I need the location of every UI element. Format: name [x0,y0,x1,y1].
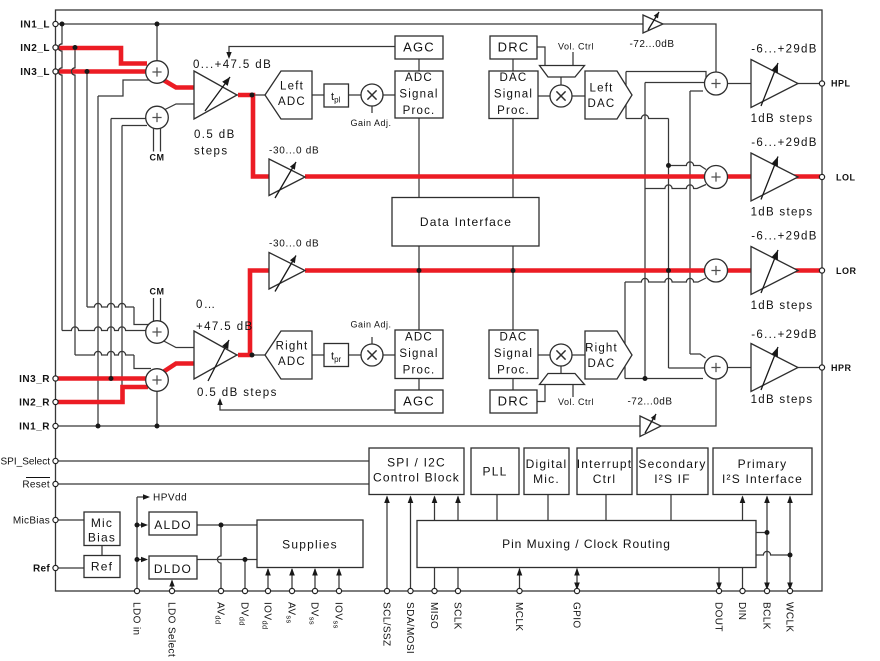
svg-text:-6...+29dB: -6...+29dB [751,137,817,149]
svg-text:CM: CM [150,287,165,297]
svg-text:+47.5 dB: +47.5 dB [196,321,254,333]
svg-text:AGC: AGC [403,40,435,55]
svg-text:DAC: DAC [500,72,528,84]
svg-text:HPR: HPR [831,363,852,373]
svg-text:DAC: DAC [500,332,528,344]
svg-text:-6...+29dB: -6...+29dB [751,231,817,243]
svg-text:CM: CM [150,153,165,163]
svg-text:SDA/MOSI: SDA/MOSI [404,602,415,654]
svg-text:WCLK: WCLK [784,602,795,633]
svg-text:IN1_L: IN1_L [20,20,50,31]
svg-text:Vol. Ctrl: Vol. Ctrl [558,42,594,52]
svg-text:1dB steps: 1dB steps [751,300,814,312]
svg-text:Vol. Ctrl: Vol. Ctrl [558,397,594,407]
svg-text:Ctrl: Ctrl [593,472,616,486]
svg-text:IN2_R: IN2_R [19,398,50,409]
svg-text:Signal: Signal [494,89,533,101]
svg-text:-30...0 dB: -30...0 dB [269,146,319,157]
svg-text:Ref: Ref [91,560,113,574]
svg-text:Bias: Bias [88,531,116,545]
svg-text:SCLK: SCLK [452,602,463,630]
svg-text:Gain Adj.: Gain Adj. [350,118,391,128]
svg-text:I²S Interface: I²S Interface [722,472,803,486]
svg-text:LOR: LOR [836,266,857,276]
svg-text:Proc.: Proc. [497,365,530,377]
svg-text:I²S IF: I²S IF [654,472,691,486]
svg-text:-72...0dB: -72...0dB [627,397,672,408]
svg-text:IN1_R: IN1_R [19,422,50,433]
svg-text:Supplies: Supplies [282,538,338,552]
svg-text:steps: steps [194,146,229,158]
svg-text:IN2_L: IN2_L [20,43,50,54]
svg-text:Digital: Digital [526,457,568,471]
svg-text:Ref: Ref [33,564,50,575]
svg-text:1dB steps: 1dB steps [751,394,814,406]
svg-text:Signal: Signal [399,89,438,101]
svg-text:0…: 0… [196,299,217,311]
svg-text:Right: Right [585,343,618,355]
svg-text:SCL/SSZ: SCL/SSZ [381,602,392,646]
svg-text:DOUT: DOUT [713,602,724,632]
svg-text:Left: Left [590,83,614,95]
svg-text:0.5 dB: 0.5 dB [194,129,236,141]
svg-text:Left: Left [280,81,304,93]
svg-text:MicBias: MicBias [13,516,50,527]
svg-text:Proc.: Proc. [403,105,436,117]
svg-text:LDO Select: LDO Select [166,602,177,657]
svg-text:DIN: DIN [736,602,747,620]
svg-text:Right: Right [276,341,309,353]
svg-text:ADC: ADC [278,356,306,368]
svg-text:1dB steps: 1dB steps [751,207,814,219]
svg-text:Signal: Signal [399,348,438,360]
svg-text:Primary: Primary [738,457,788,471]
svg-text:-72...0dB: -72...0dB [629,39,674,50]
svg-text:-6...+29dB: -6...+29dB [751,329,817,341]
svg-text:Mic: Mic [91,516,113,530]
svg-text:LOL: LOL [836,173,856,183]
svg-text:Interrupt: Interrupt [577,457,633,471]
svg-text:-6...+29dB: -6...+29dB [751,44,817,56]
svg-text:Data Interface: Data Interface [420,215,512,229]
svg-text:BCLK: BCLK [761,602,772,630]
svg-text:DRC: DRC [498,394,530,409]
svg-text:Pin Muxing / Clock Routing: Pin Muxing / Clock Routing [502,537,671,551]
svg-text:-30...0 dB: -30...0 dB [269,239,319,250]
svg-text:IN3_L: IN3_L [20,67,50,78]
svg-text:ADC: ADC [278,96,306,108]
svg-text:Reset: Reset [22,480,50,491]
svg-text:ADC: ADC [405,72,433,84]
svg-text:GPIO: GPIO [571,602,582,629]
svg-text:DRC: DRC [498,40,530,55]
svg-text:DLDO: DLDO [154,562,192,576]
svg-text:HPL: HPL [831,79,851,89]
svg-text:1dB steps: 1dB steps [751,113,814,125]
svg-text:ALDO: ALDO [154,518,191,532]
svg-text:SPI / I2C: SPI / I2C [387,456,446,470]
svg-text:MISO: MISO [428,602,439,629]
svg-text:HPVdd: HPVdd [153,493,187,504]
svg-text:Mic.: Mic. [533,472,560,486]
svg-text:0.5 dB steps: 0.5 dB steps [197,387,278,399]
svg-text:DAC: DAC [588,358,616,370]
svg-text:Secondary: Secondary [638,457,706,471]
svg-text:AGC: AGC [403,394,435,409]
svg-text:Proc.: Proc. [403,365,436,377]
svg-text:SPI_Select: SPI_Select [1,457,51,468]
svg-text:Control Block: Control Block [373,471,460,485]
svg-text:Gain Adj.: Gain Adj. [350,320,391,330]
svg-text:Signal: Signal [494,348,533,360]
svg-text:PLL: PLL [483,465,508,479]
svg-text:MCLK: MCLK [513,602,524,631]
svg-text:DAC: DAC [588,98,616,110]
svg-text:ADC: ADC [405,332,433,344]
svg-text:IN3_R: IN3_R [19,374,50,385]
svg-text:Proc.: Proc. [497,105,530,117]
svg-text:LDO in: LDO in [131,602,142,636]
svg-text:0...+47.5 dB: 0...+47.5 dB [193,59,272,71]
